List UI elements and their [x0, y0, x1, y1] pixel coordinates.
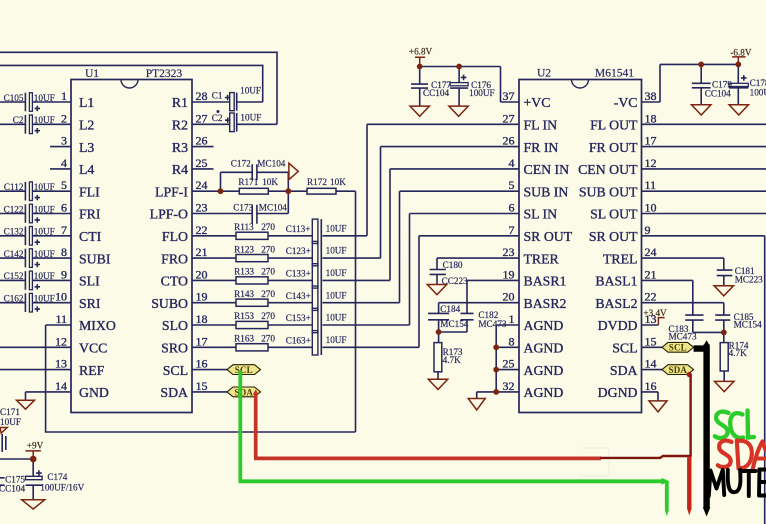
svg-text:LPF-O: LPF-O	[150, 207, 188, 222]
svg-text:SRI: SRI	[79, 296, 101, 311]
svg-text:FRO: FRO	[161, 251, 188, 266]
svg-text:10UF: 10UF	[326, 313, 347, 323]
svg-text:100UF: 100UF	[469, 88, 495, 98]
svg-text:REF: REF	[79, 363, 105, 378]
svg-text:FR IN: FR IN	[524, 140, 559, 155]
svg-text:10: 10	[55, 290, 67, 304]
svg-text:37: 37	[503, 89, 515, 103]
svg-text:TRER: TRER	[524, 251, 560, 266]
svg-text:CC223: CC223	[442, 276, 468, 286]
svg-text:SUBI: SUBI	[79, 251, 111, 266]
svg-text:C123+: C123+	[286, 246, 311, 256]
svg-text:MC223: MC223	[735, 275, 763, 285]
svg-text:270: 270	[261, 244, 275, 254]
svg-text:-VC: -VC	[614, 95, 638, 110]
svg-text:100UF: 100UF	[750, 88, 766, 98]
svg-text:C171: C171	[0, 407, 20, 417]
svg-text:15: 15	[196, 379, 208, 393]
svg-text:26: 26	[196, 134, 208, 148]
svg-text:10UF: 10UF	[34, 115, 55, 125]
svg-text:R2: R2	[172, 118, 188, 133]
svg-text:SL OUT: SL OUT	[590, 207, 638, 222]
svg-text:5: 5	[509, 178, 515, 192]
svg-text:R153: R153	[234, 311, 254, 321]
svg-text:10UF: 10UF	[0, 417, 21, 427]
svg-text:AGND: AGND	[524, 385, 564, 400]
svg-text:SR OUT: SR OUT	[524, 229, 573, 244]
svg-text:SUBO: SUBO	[151, 296, 188, 311]
svg-text:27: 27	[503, 111, 515, 125]
svg-text:13: 13	[55, 357, 67, 371]
svg-text:C2: C2	[212, 113, 223, 123]
svg-text:21: 21	[645, 267, 657, 281]
svg-text:VCC: VCC	[79, 341, 107, 356]
svg-text:U2: U2	[537, 68, 551, 80]
svg-text:10UF: 10UF	[34, 249, 55, 259]
svg-text:R172: R172	[307, 177, 327, 187]
svg-text:270: 270	[261, 222, 275, 232]
svg-text:C153+: C153+	[286, 313, 311, 323]
svg-text:+VC: +VC	[524, 95, 551, 110]
svg-text:22: 22	[645, 290, 657, 304]
svg-text:SCL: SCL	[163, 363, 188, 378]
svg-text:SDA: SDA	[234, 387, 253, 397]
svg-text:SUB IN: SUB IN	[524, 184, 569, 199]
svg-text:38: 38	[645, 89, 657, 103]
svg-text:CTO: CTO	[161, 274, 188, 289]
svg-text:C2: C2	[13, 115, 24, 125]
svg-text:L3: L3	[79, 140, 94, 155]
svg-text:270: 270	[261, 267, 275, 277]
svg-text:270: 270	[261, 334, 275, 344]
svg-text:CEN IN: CEN IN	[524, 162, 570, 177]
svg-text:10UF: 10UF	[326, 290, 347, 300]
svg-text:DVDD: DVDD	[598, 318, 638, 333]
svg-text:MC154: MC154	[734, 319, 762, 329]
svg-text:C172: C172	[231, 159, 251, 169]
svg-text:C143+: C143+	[286, 291, 311, 301]
svg-text:4.7K: 4.7K	[729, 348, 747, 358]
svg-text:1: 1	[61, 89, 67, 103]
svg-text:10UF: 10UF	[34, 182, 55, 192]
svg-text:25: 25	[503, 357, 515, 371]
svg-text:CC104: CC104	[423, 88, 449, 98]
svg-text:10UF: 10UF	[34, 271, 55, 281]
svg-text:32: 32	[503, 379, 515, 393]
svg-text:U1: U1	[85, 68, 99, 80]
svg-text:10: 10	[645, 201, 657, 215]
svg-text:23: 23	[503, 245, 515, 259]
svg-text:23: 23	[196, 201, 208, 215]
svg-text:10UF: 10UF	[240, 112, 261, 122]
svg-text:C132: C132	[4, 227, 24, 237]
svg-text:C122: C122	[4, 204, 24, 214]
svg-text:24: 24	[196, 178, 208, 192]
svg-text:CC104: CC104	[705, 88, 731, 98]
svg-text:2: 2	[61, 111, 67, 125]
svg-text:L4: L4	[79, 162, 94, 177]
svg-text:+6.8V: +6.8V	[409, 47, 433, 57]
svg-text:10K: 10K	[330, 177, 346, 187]
svg-text:SR OUT: SR OUT	[589, 229, 638, 244]
svg-text:BASR2: BASR2	[524, 296, 567, 311]
svg-text:FLO: FLO	[162, 229, 188, 244]
svg-text:MC473: MC473	[478, 319, 506, 329]
svg-text:10UF: 10UF	[34, 227, 55, 237]
svg-text:12: 12	[645, 156, 657, 170]
svg-text:C163+: C163+	[286, 335, 311, 345]
svg-text:FR OUT: FR OUT	[589, 140, 638, 155]
svg-text:R143: R143	[234, 289, 254, 299]
svg-text:25: 25	[196, 156, 208, 170]
svg-text:SCL: SCL	[235, 365, 253, 375]
svg-text:C184: C184	[440, 304, 460, 314]
svg-text:7: 7	[509, 223, 515, 237]
svg-text:17: 17	[645, 134, 657, 148]
svg-text:17: 17	[196, 334, 208, 348]
svg-text:MC104: MC104	[259, 203, 287, 213]
svg-text:SUB OUT: SUB OUT	[579, 184, 638, 199]
svg-text:+3.4V: +3.4V	[643, 308, 667, 318]
svg-text:FRI: FRI	[79, 207, 101, 222]
svg-text:R113: R113	[234, 222, 254, 232]
svg-text:AGND: AGND	[524, 341, 564, 356]
svg-text:C112: C112	[4, 182, 24, 192]
svg-text:C142: C142	[4, 249, 24, 259]
svg-text:10UF: 10UF	[34, 93, 55, 103]
svg-text:+9V: +9V	[27, 440, 44, 450]
svg-text:SDA: SDA	[668, 365, 687, 375]
svg-text:270: 270	[261, 311, 275, 321]
svg-text:22: 22	[196, 223, 208, 237]
svg-text:MIXO: MIXO	[79, 318, 116, 333]
svg-text:18: 18	[196, 312, 208, 326]
svg-text:8: 8	[509, 334, 515, 348]
svg-text:10UF: 10UF	[240, 85, 261, 95]
svg-text:R171: R171	[238, 177, 258, 187]
svg-text:14: 14	[55, 379, 67, 393]
svg-text:M61541: M61541	[595, 68, 634, 80]
svg-text:TREL: TREL	[603, 251, 638, 266]
svg-text:18: 18	[645, 111, 657, 125]
svg-text:MC104: MC104	[257, 159, 285, 169]
svg-text:C162: C162	[4, 294, 24, 304]
svg-text:4: 4	[509, 156, 515, 170]
svg-text:BASR1: BASR1	[524, 274, 567, 289]
svg-text:AGND: AGND	[524, 363, 564, 378]
svg-text:R123: R123	[234, 244, 254, 254]
svg-text:C113+: C113+	[286, 224, 311, 234]
svg-text:C180: C180	[443, 260, 463, 270]
svg-text:5: 5	[61, 178, 67, 192]
svg-text:4.7K: 4.7K	[443, 355, 461, 365]
svg-text:R163: R163	[234, 334, 254, 344]
svg-text:14: 14	[645, 357, 657, 371]
svg-text:SL IN: SL IN	[524, 207, 558, 222]
svg-text:SCL: SCL	[669, 343, 687, 353]
svg-text:SDA: SDA	[610, 363, 638, 378]
svg-text:10UF: 10UF	[34, 294, 55, 304]
svg-text:21: 21	[196, 245, 208, 259]
svg-text:9: 9	[61, 267, 67, 281]
svg-text:BASL1: BASL1	[595, 274, 637, 289]
svg-text:LPF-I: LPF-I	[155, 184, 188, 199]
svg-text:15: 15	[645, 334, 657, 348]
svg-text:27: 27	[196, 111, 208, 125]
svg-text:SDA: SDA	[160, 385, 188, 400]
svg-text:CTI: CTI	[79, 229, 102, 244]
svg-text:11: 11	[645, 178, 657, 192]
svg-text:26: 26	[503, 134, 515, 148]
svg-text:SRO: SRO	[161, 341, 188, 356]
svg-text:20: 20	[503, 290, 515, 304]
svg-text:R1: R1	[172, 95, 188, 110]
svg-text:11: 11	[55, 312, 67, 326]
svg-text:8: 8	[61, 245, 67, 259]
svg-text:PT2323: PT2323	[146, 68, 183, 80]
svg-text:6: 6	[61, 201, 67, 215]
svg-text:C174: C174	[47, 472, 67, 482]
svg-text:R133: R133	[234, 267, 254, 277]
svg-text:CC104: CC104	[0, 484, 25, 494]
svg-text:-6.8V: -6.8V	[730, 47, 752, 57]
svg-text:SCL: SCL	[612, 341, 637, 356]
svg-text:CEN OUT: CEN OUT	[578, 162, 638, 177]
svg-text:C1: C1	[212, 91, 223, 101]
svg-text:GND: GND	[79, 385, 109, 400]
svg-text:4: 4	[61, 156, 67, 170]
svg-text:R3: R3	[172, 140, 188, 155]
svg-text:MC154: MC154	[440, 319, 468, 329]
svg-text:12: 12	[55, 334, 67, 348]
svg-text:6: 6	[509, 201, 515, 215]
svg-text:19: 19	[503, 267, 515, 281]
svg-text:L2: L2	[79, 118, 94, 133]
svg-text:3: 3	[61, 134, 67, 148]
svg-text:16: 16	[196, 357, 208, 371]
svg-text:SLI: SLI	[79, 274, 100, 289]
svg-text:C133+: C133+	[286, 269, 311, 279]
svg-text:MC473: MC473	[669, 332, 697, 342]
svg-text:10UF: 10UF	[326, 223, 347, 233]
svg-text:C173: C173	[233, 203, 253, 213]
svg-text:28: 28	[196, 89, 208, 103]
svg-text:10UF: 10UF	[34, 204, 55, 214]
svg-text:10UF: 10UF	[326, 335, 347, 345]
svg-text:10K: 10K	[262, 177, 278, 187]
svg-text:16: 16	[645, 379, 657, 393]
svg-text:SLO: SLO	[162, 318, 188, 333]
svg-text:R4: R4	[172, 162, 188, 177]
svg-text:FL IN: FL IN	[524, 118, 558, 133]
svg-text:10UF: 10UF	[326, 246, 347, 256]
svg-text:270: 270	[261, 289, 275, 299]
svg-text:L1: L1	[79, 95, 94, 110]
svg-text:7: 7	[61, 223, 67, 237]
svg-text:10UF: 10UF	[326, 268, 347, 278]
svg-text:1: 1	[509, 312, 515, 326]
svg-text:FL OUT: FL OUT	[590, 118, 638, 133]
svg-text:C152: C152	[4, 271, 24, 281]
svg-text:AGND: AGND	[524, 318, 564, 333]
svg-text:100UF/16V: 100UF/16V	[40, 483, 84, 493]
svg-text:24: 24	[645, 245, 657, 259]
svg-text:BASL2: BASL2	[595, 296, 637, 311]
svg-text:9: 9	[645, 223, 651, 237]
svg-text:DGND: DGND	[598, 385, 638, 400]
svg-text:C105: C105	[4, 93, 24, 103]
svg-text:20: 20	[196, 267, 208, 281]
svg-text:19: 19	[196, 290, 208, 304]
svg-text:FLI: FLI	[79, 184, 100, 199]
svg-text:C178: C178	[750, 78, 766, 88]
